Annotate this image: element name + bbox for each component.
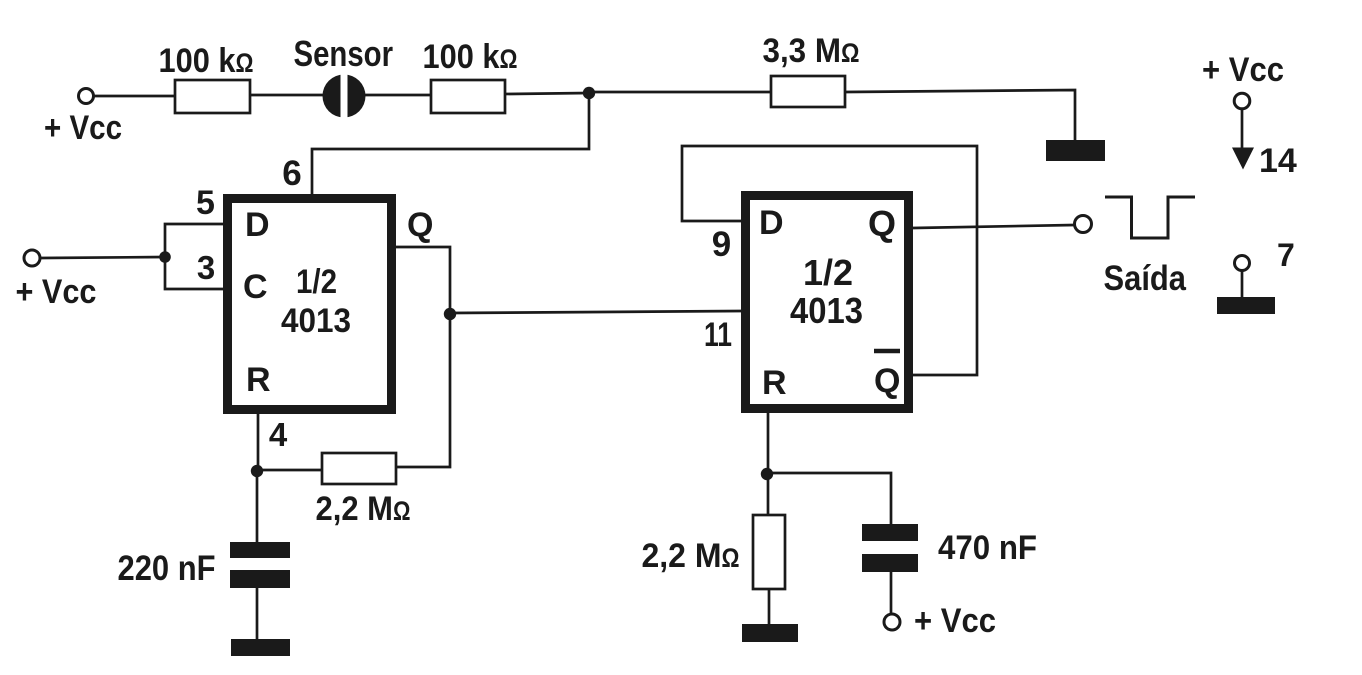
svg-text:Saída: Saída	[1104, 259, 1187, 298]
wire node A to pin 6	[312, 93, 589, 194]
svg-text:4: 4	[269, 416, 288, 453]
svg-text:7: 7	[1277, 237, 1295, 273]
node C junction	[444, 308, 456, 320]
svg-text:+ Vcc: + Vcc	[16, 273, 97, 311]
ground bar bottom-left	[231, 639, 290, 656]
wire node A to R3	[589, 91, 771, 94]
node D junction	[251, 465, 263, 477]
wire terminal to R1	[94, 95, 175, 98]
resistor R1 100 kΩ	[159, 42, 254, 113]
wire node E to C2	[767, 473, 891, 524]
svg-text:9: 9	[712, 225, 731, 264]
svg-text:D: D	[245, 206, 270, 244]
pin 6 label	[282, 154, 301, 193]
terminal +Vcc bottom-right	[884, 602, 996, 640]
node B junction	[159, 251, 171, 263]
wire U1 Q output	[396, 247, 450, 314]
ground bar top-right	[1046, 140, 1105, 161]
svg-text:Q: Q	[868, 203, 896, 244]
resistor R4 2,2 MΩ	[316, 453, 411, 528]
wire sensor to R2	[365, 94, 431, 97]
terminal +Vcc pin 14 supply	[1202, 51, 1297, 180]
svg-text:4013: 4013	[790, 290, 863, 331]
pin 5 label	[196, 184, 215, 222]
svg-text:6: 6	[282, 154, 301, 193]
wire node C down to R4	[396, 314, 450, 467]
wire pin5-pin3 link	[165, 224, 223, 289]
svg-text:2,2 MΩ: 2,2 MΩ	[642, 537, 740, 575]
wire node C to pin 11	[450, 311, 741, 313]
svg-text:2,2 MΩ: 2,2 MΩ	[316, 490, 411, 528]
svg-text:+ Vcc: + Vcc	[914, 602, 996, 640]
svg-text:4013: 4013	[281, 302, 351, 340]
pin 11 label	[704, 316, 732, 354]
pin 9 label	[712, 225, 731, 264]
svg-text:Sensor: Sensor	[294, 33, 394, 74]
svg-text:Q: Q	[874, 362, 900, 400]
svg-text:R: R	[246, 361, 271, 399]
pin 4 label	[269, 416, 288, 453]
svg-text:1/2: 1/2	[296, 263, 337, 301]
resistor R5 2,2 MΩ	[642, 474, 786, 624]
svg-text:3,3 MΩ: 3,3 MΩ	[763, 32, 860, 70]
svg-text:1/2: 1/2	[803, 252, 853, 293]
wire terminal to node B	[41, 257, 165, 258]
svg-text:+ Vcc: + Vcc	[44, 109, 122, 147]
wire feedback Qbar to D	[682, 146, 977, 375]
node A junction	[583, 87, 595, 99]
svg-text:Q: Q	[407, 206, 433, 244]
svg-text:100 kΩ: 100 kΩ	[159, 42, 254, 80]
node E junction	[761, 468, 773, 480]
svg-text:470 nF: 470 nF	[938, 529, 1037, 567]
svg-text:11: 11	[704, 316, 732, 354]
resistor R2 100 kΩ	[423, 38, 518, 113]
wire R3 to ground	[845, 90, 1075, 141]
terminal +Vcc top-left	[44, 89, 122, 148]
resistor R3 3,3 MΩ	[763, 32, 860, 107]
sensor	[294, 33, 394, 120]
flip-flop U2 1/2 4013	[746, 196, 909, 409]
wire U1 R pin	[257, 414, 260, 471]
svg-text:14: 14	[1259, 142, 1297, 180]
pin 3 label	[197, 249, 215, 286]
terminal +Vcc mid-left	[16, 250, 97, 311]
terminal Saída output	[1075, 216, 1187, 299]
flip-flop U1 1/2 4013	[228, 199, 434, 410]
pulse waveform icon	[1105, 197, 1195, 238]
svg-text:+ Vcc: + Vcc	[1202, 51, 1284, 89]
svg-text:R: R	[762, 364, 787, 402]
wire R2 to node A	[505, 93, 589, 94]
wire U2 R pin	[767, 413, 770, 474]
wire R1 to sensor	[250, 94, 324, 97]
svg-text:220 nF: 220 nF	[118, 549, 216, 588]
svg-text:5: 5	[196, 184, 215, 222]
capacitor C1 220 nF	[118, 471, 291, 640]
ground bar bottom-mid	[742, 624, 798, 642]
svg-text:3: 3	[197, 249, 215, 286]
capacitor C2 470 nF	[862, 524, 1037, 614]
svg-text:100 kΩ: 100 kΩ	[423, 38, 518, 76]
svg-text:C: C	[243, 268, 268, 306]
wire node D to R4	[257, 469, 322, 472]
wire U2 Q to output terminal	[913, 225, 1074, 228]
terminal pin 7 ground	[1217, 237, 1295, 314]
svg-text:D: D	[759, 204, 784, 242]
